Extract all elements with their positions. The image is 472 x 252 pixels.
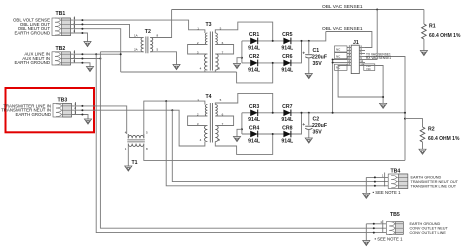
svg-text:35V: 35V bbox=[313, 61, 323, 67]
ground below T2 pin5 bbox=[173, 65, 180, 70]
J1 right NC box pins 11-13 bbox=[364, 64, 375, 71]
svg-text:• SEE NOTE 1: • SEE NOTE 1 bbox=[375, 237, 404, 242]
wire T4 pins 6-7 right bracket bbox=[215, 116, 233, 126]
wire T2 pin5 to ground bbox=[150, 52, 176, 65]
svg-text:TRANSMITTER NEUT OUT: TRANSMITTER NEUT OUT bbox=[411, 180, 459, 184]
ground below R1 bbox=[420, 51, 427, 56]
connector J1 body bbox=[351, 45, 359, 73]
junction TB4 rail1 bbox=[374, 176, 376, 178]
svg-text:CR7: CR7 bbox=[282, 104, 292, 110]
svg-text:60.4 OHM 1%: 60.4 OHM 1% bbox=[429, 33, 461, 39]
svg-text:60.4 OHM 1%: 60.4 OHM 1% bbox=[428, 136, 460, 142]
junction bridge1 left tie to ground bbox=[241, 57, 243, 59]
svg-text:914L: 914L bbox=[248, 117, 261, 123]
svg-text:914L: 914L bbox=[248, 45, 261, 51]
ground below TB4 bbox=[363, 193, 370, 198]
svg-text:220uF: 220uF bbox=[312, 54, 327, 60]
svg-text:CR4: CR4 bbox=[249, 125, 259, 131]
junction TX sense node bbox=[404, 112, 406, 114]
wire TB3-3 earth stub bbox=[72, 115, 89, 120]
svg-text:EARTH GROUND: EARTH GROUND bbox=[14, 30, 50, 35]
wire J1 pin12 to sense node bbox=[333, 62, 347, 64]
junction bridge2 top mid bbox=[272, 112, 274, 114]
junction bridge2 left tie to ground bbox=[241, 128, 243, 130]
terminal block TB1 body bbox=[52, 17, 75, 36]
junction J1 pin10 wire bbox=[332, 59, 334, 61]
wire J1 left pin 10 stub bbox=[347, 59, 351, 61]
wire TB2-2 AUX NEUT IN bbox=[71, 58, 101, 60]
svg-text:914L: 914L bbox=[281, 117, 294, 123]
T3 winding 3-4 (lower left) bbox=[204, 54, 207, 70]
wire T4 pins 2-3 left bracket bbox=[188, 116, 208, 126]
svg-text:EARTH GROUND: EARTH GROUND bbox=[14, 60, 50, 65]
wire bridge2 left tie bbox=[241, 113, 243, 134]
junction TB5 rail2 bbox=[373, 227, 375, 229]
wire TB1-4 earth stub bbox=[71, 33, 88, 42]
wire RX VAC SENSE1 bbox=[365, 59, 377, 61]
T3 winding 1-2 (upper left) bbox=[205, 33, 207, 45]
diode CR1 bbox=[250, 38, 258, 45]
wire conv outlet neut rail bbox=[100, 52, 386, 228]
wire T1 top-right pin riser bbox=[143, 134, 145, 138]
resistor R1 zigzag bbox=[422, 24, 427, 39]
svg-text:914L: 914L bbox=[281, 139, 294, 145]
wire conv outlet line rail bbox=[96, 54, 386, 232]
diode CR8 bbox=[283, 131, 291, 138]
ground bridge2 left bbox=[233, 137, 240, 142]
terminal block TB3 body bbox=[53, 102, 76, 117]
wire TB4 ground drop bbox=[365, 177, 367, 193]
wire R2 top bbox=[405, 119, 423, 127]
junction bridge2 C2 tap bbox=[308, 112, 310, 114]
svg-text:EARTH GROUND: EARTH GROUND bbox=[410, 222, 441, 226]
svg-text:EARTH GROUND: EARTH GROUND bbox=[15, 112, 51, 117]
ground below TB5 bbox=[363, 241, 370, 246]
svg-text:T1: T1 bbox=[132, 160, 138, 166]
wire transmitter line out drop bbox=[166, 101, 388, 186]
junction TB1-1 bbox=[81, 19, 83, 21]
wire net OBL_VAC_SENSE1 to J1 pin1 bbox=[326, 32, 372, 48]
wire TB2-3 earth stub bbox=[71, 63, 91, 67]
wire J1 pin10 to sense node bbox=[333, 60, 347, 113]
junction bridge1 top mid bbox=[272, 40, 274, 42]
wire T4 pin8 to bridge2 bottom feed bbox=[215, 134, 272, 154]
svg-text:R1: R1 bbox=[429, 24, 436, 30]
wire T2 pin1A stub bbox=[142, 37, 144, 39]
wire TB2-1 AUX LINE IN bbox=[71, 53, 121, 55]
svg-text:CR8: CR8 bbox=[282, 125, 292, 131]
junction TB5 rail1 bbox=[373, 223, 375, 225]
diode CR3 bbox=[250, 110, 258, 117]
svg-text:35V: 35V bbox=[313, 130, 323, 136]
junction TB1-2 bbox=[81, 23, 83, 25]
wire bridge2 ground stub bbox=[237, 129, 242, 136]
wire T3 pin5 to bridge1 top feed bbox=[215, 22, 272, 41]
diode CR7 bbox=[283, 110, 291, 117]
wire T3 pin8 riser bbox=[214, 70, 216, 72]
junction TB2-1 to conv line rail bbox=[95, 53, 97, 55]
junction TB2-1 at OBL NEUT drop bbox=[120, 53, 122, 55]
ground below T1 bbox=[125, 166, 132, 171]
svg-text:2A: 2A bbox=[134, 48, 138, 52]
wire J1 left pin 14 stub bbox=[347, 65, 351, 67]
svg-text:CR1: CR1 bbox=[249, 32, 259, 38]
junction bridge1 bottom mid bbox=[272, 62, 274, 64]
junction TB1-4 bbox=[81, 32, 83, 34]
T1 upper winding bbox=[128, 135, 144, 138]
wire T2 pin 2A to neut rail bbox=[100, 51, 141, 53]
wire T1 bottom-left pin to ground bbox=[127, 144, 129, 166]
svg-text:TB2: TB2 bbox=[56, 46, 66, 52]
ground below C1 bbox=[305, 74, 312, 79]
svg-text:TB1: TB1 bbox=[56, 11, 66, 17]
transformer T3 core bbox=[210, 32, 212, 71]
wire J1 right pin 9 stub bbox=[359, 59, 365, 61]
svg-text:TRANSMITTER LINE OUT: TRANSMITTER LINE OUT bbox=[411, 184, 457, 188]
wire C1 bottom bbox=[308, 59, 310, 74]
svg-text:TB5: TB5 bbox=[390, 212, 400, 218]
junction TB4 rail3 bbox=[374, 185, 376, 187]
wire T4 pin5 to bridge2 top feed bbox=[215, 93, 272, 112]
diode CR6 bbox=[283, 60, 291, 67]
wire J1 right pin 5 stub bbox=[359, 53, 365, 55]
junction TB5 rail3 bbox=[373, 232, 375, 234]
junction TB2-1 connector bbox=[81, 53, 83, 55]
svg-text:1A: 1A bbox=[134, 33, 138, 37]
terminal block TB2 body bbox=[52, 50, 75, 65]
diode CR5 bbox=[283, 38, 291, 45]
ground below TB3 bbox=[84, 119, 91, 124]
junction J1 pin12 wire bbox=[332, 62, 334, 64]
wire bridge1 bottom feed jog bbox=[237, 63, 273, 83]
junction TB2-2 connector bbox=[81, 58, 83, 60]
wire bridge2 top row / TX sense line bbox=[242, 112, 405, 114]
terminal block TB5 body bbox=[383, 220, 404, 235]
junction TB3-1 connector bbox=[81, 105, 83, 107]
wire TB5 earth stub bbox=[366, 223, 386, 225]
wire bridge1 top row bbox=[242, 32, 326, 41]
T4 winding 3-4 (lower left) bbox=[204, 126, 207, 142]
T3 winding 5-6 (upper right) bbox=[215, 33, 217, 45]
wire TB3-1 TRANSMITTER LINE IN to T1 bbox=[72, 106, 127, 134]
T1 lower winding bbox=[128, 144, 144, 147]
svg-text:OBL VAC SENSE1: OBL VAC SENSE1 bbox=[322, 4, 363, 10]
svg-text:C1: C1 bbox=[313, 48, 320, 54]
wire J1 right pin 11 stub bbox=[359, 62, 365, 64]
svg-text:CONV OUTLET NEUT: CONV OUTLET NEUT bbox=[410, 227, 449, 231]
transformer T2 secondary winding bbox=[150, 38, 153, 52]
capacitor C1 bbox=[303, 52, 313, 58]
wire TB5 ground drop bbox=[365, 224, 367, 241]
wire T3 pin4/pin8 bottom line bbox=[121, 71, 237, 73]
junction row A to TB4 line out bbox=[165, 100, 167, 102]
svg-text:OBL VAC SENSE1: OBL VAC SENSE1 bbox=[322, 26, 363, 32]
T1 upper stubs bbox=[128, 134, 144, 138]
transformer T4 core bbox=[210, 103, 212, 143]
junction TB3-2 to TB4 neut bbox=[171, 109, 173, 111]
wire J1 left pin 4 stub bbox=[347, 50, 351, 52]
wire TB1-3 OBL NEUT OUT down bbox=[71, 29, 121, 72]
wire J1 left pin 12 stub bbox=[347, 62, 351, 64]
svg-text:T2: T2 bbox=[145, 29, 151, 35]
wire J1 ground line bbox=[338, 66, 383, 98]
wire C1 top bbox=[308, 41, 310, 54]
wire TB4 earth stub bbox=[366, 176, 388, 178]
T4 winding 5-6 (upper right) bbox=[215, 105, 217, 117]
junction J1 ground bbox=[382, 96, 384, 98]
junction TB2-2 to conv neut rail bbox=[99, 58, 101, 60]
wire J1 right pin 3 stub bbox=[359, 50, 365, 52]
wire C2 top bbox=[308, 113, 310, 126]
transformer T2 core bbox=[146, 37, 148, 54]
junction TB4 rail2 bbox=[374, 181, 376, 183]
ground below TB1 bbox=[84, 42, 91, 47]
svg-text:CONV OUTLET LINE: CONV OUTLET LINE bbox=[410, 231, 447, 235]
transformer T2 primary winding bbox=[141, 38, 144, 52]
resistor R2 zigzag bbox=[420, 127, 425, 142]
junction TB1-3 bbox=[81, 28, 83, 30]
svg-text:914L: 914L bbox=[281, 67, 294, 73]
wire TB3-2 TRANSMITTER NEUT IN bbox=[72, 110, 205, 146]
wire R2 bottom bbox=[422, 142, 424, 149]
wire T1 top-left pin riser bbox=[127, 134, 129, 138]
T3 winding 7-8 (lower right) bbox=[215, 54, 218, 70]
wire J1 left pin 2 stub bbox=[347, 47, 351, 49]
svg-text:914L: 914L bbox=[281, 45, 294, 51]
svg-text:R2: R2 bbox=[428, 127, 435, 133]
junction bridge2 bottom mid bbox=[272, 133, 274, 135]
wire J1 right pin 7 stub bbox=[359, 56, 365, 58]
svg-text:14: 14 bbox=[347, 62, 351, 66]
svg-text:EARTH GROUND: EARTH GROUND bbox=[411, 176, 442, 180]
J1 left NC box pins 12-14 bbox=[335, 64, 348, 70]
wire TX VAC SENSE1 bbox=[365, 57, 405, 161]
svg-text:CR5: CR5 bbox=[282, 32, 292, 38]
wire J1 left pin 6 stub bbox=[347, 53, 351, 55]
svg-text:T4: T4 bbox=[206, 94, 212, 100]
junction R2 branch bbox=[404, 118, 406, 120]
wire J1 pin13 to ground bbox=[359, 66, 383, 104]
transformer T1 core bbox=[127, 140, 145, 142]
wire TB1-2 OBL LINE OUT to T2 pin 1A bbox=[71, 24, 142, 37]
junction bridge2 row join bbox=[301, 112, 303, 114]
junction TB3-3 connector bbox=[81, 114, 83, 116]
wire bridge1 left tie bbox=[241, 41, 243, 63]
svg-text:• SEE NOTE 1: • SEE NOTE 1 bbox=[373, 190, 402, 195]
junction J1 pin10 tap bbox=[332, 112, 334, 114]
highlight box around TB3 bbox=[6, 88, 95, 132]
svg-text:914L: 914L bbox=[248, 139, 261, 145]
svg-text:CR3: CR3 bbox=[249, 104, 259, 110]
wire net OBL_VAC_SENSE1 top rail bbox=[172, 9, 424, 11]
ground below C2 bbox=[305, 138, 312, 143]
wire bridge1 bottom row bbox=[242, 41, 302, 63]
svg-text:CR2: CR2 bbox=[249, 54, 259, 60]
junction bridge1 C1 tap bbox=[308, 40, 310, 42]
svg-text:C2: C2 bbox=[313, 116, 320, 122]
wire bridge1 ground stub bbox=[237, 58, 242, 64]
capacitor C2 bbox=[303, 123, 313, 129]
wire T3 pins 2-3 left bracket bbox=[188, 45, 208, 55]
svg-text:220uF: 220uF bbox=[312, 123, 327, 129]
ground below TB2 bbox=[86, 67, 93, 72]
J1 left NC box pins 2-4 bbox=[335, 46, 348, 52]
wire top rail drop to RX sense bbox=[376, 10, 378, 60]
junction top rail to J1 pin3 bbox=[376, 9, 378, 11]
ground bridge1 left bbox=[233, 64, 240, 69]
wire T1 bottom-right pin to TX sense line bbox=[144, 144, 405, 161]
wire R1 top bbox=[423, 10, 425, 25]
wire TB1-1 OBL VOLT SENSE to T3 pin1 bbox=[71, 20, 205, 33]
svg-text:TB3: TB3 bbox=[58, 98, 68, 104]
svg-text:CR6: CR6 bbox=[282, 54, 292, 60]
ground below J1 bbox=[380, 103, 387, 108]
wire J1 right pin 13 stub bbox=[359, 65, 365, 67]
svg-text:T3: T3 bbox=[206, 22, 212, 28]
svg-text:914L: 914L bbox=[248, 67, 261, 73]
junction TB2-3 connector bbox=[81, 62, 83, 64]
wire J1 left pin 8 stub bbox=[347, 56, 351, 58]
diode CR2 bbox=[250, 60, 258, 67]
T4 winding 1-2 (upper left) bbox=[205, 105, 207, 117]
wire node A: T1 out to T4 pin1 bbox=[144, 101, 205, 134]
wire T3 pins 6-7 right bracket bbox=[215, 45, 233, 55]
wire T2 pin2A stub bbox=[142, 51, 144, 53]
terminal block TB4 body bbox=[385, 173, 408, 189]
junction bridge1 row join bbox=[301, 40, 303, 42]
wire T3 pin4 riser bbox=[204, 70, 206, 72]
wire transmitter neut out drop bbox=[172, 110, 388, 181]
wire J1 right pin 1 stub bbox=[359, 47, 365, 49]
wire T2 pin8 to top rail bbox=[150, 10, 171, 38]
wire C2 bottom bbox=[308, 130, 310, 138]
junction TB3-2 connector bbox=[81, 109, 83, 111]
diode CR4 bbox=[250, 131, 258, 138]
ground below R2 bbox=[419, 149, 426, 154]
J1 left NC box pins 6-8 bbox=[335, 53, 348, 59]
wire bridge2 bottom row bbox=[242, 113, 302, 134]
wire R1 bottom bbox=[423, 39, 425, 51]
T4 winding 7-8 (lower right) bbox=[215, 126, 218, 142]
